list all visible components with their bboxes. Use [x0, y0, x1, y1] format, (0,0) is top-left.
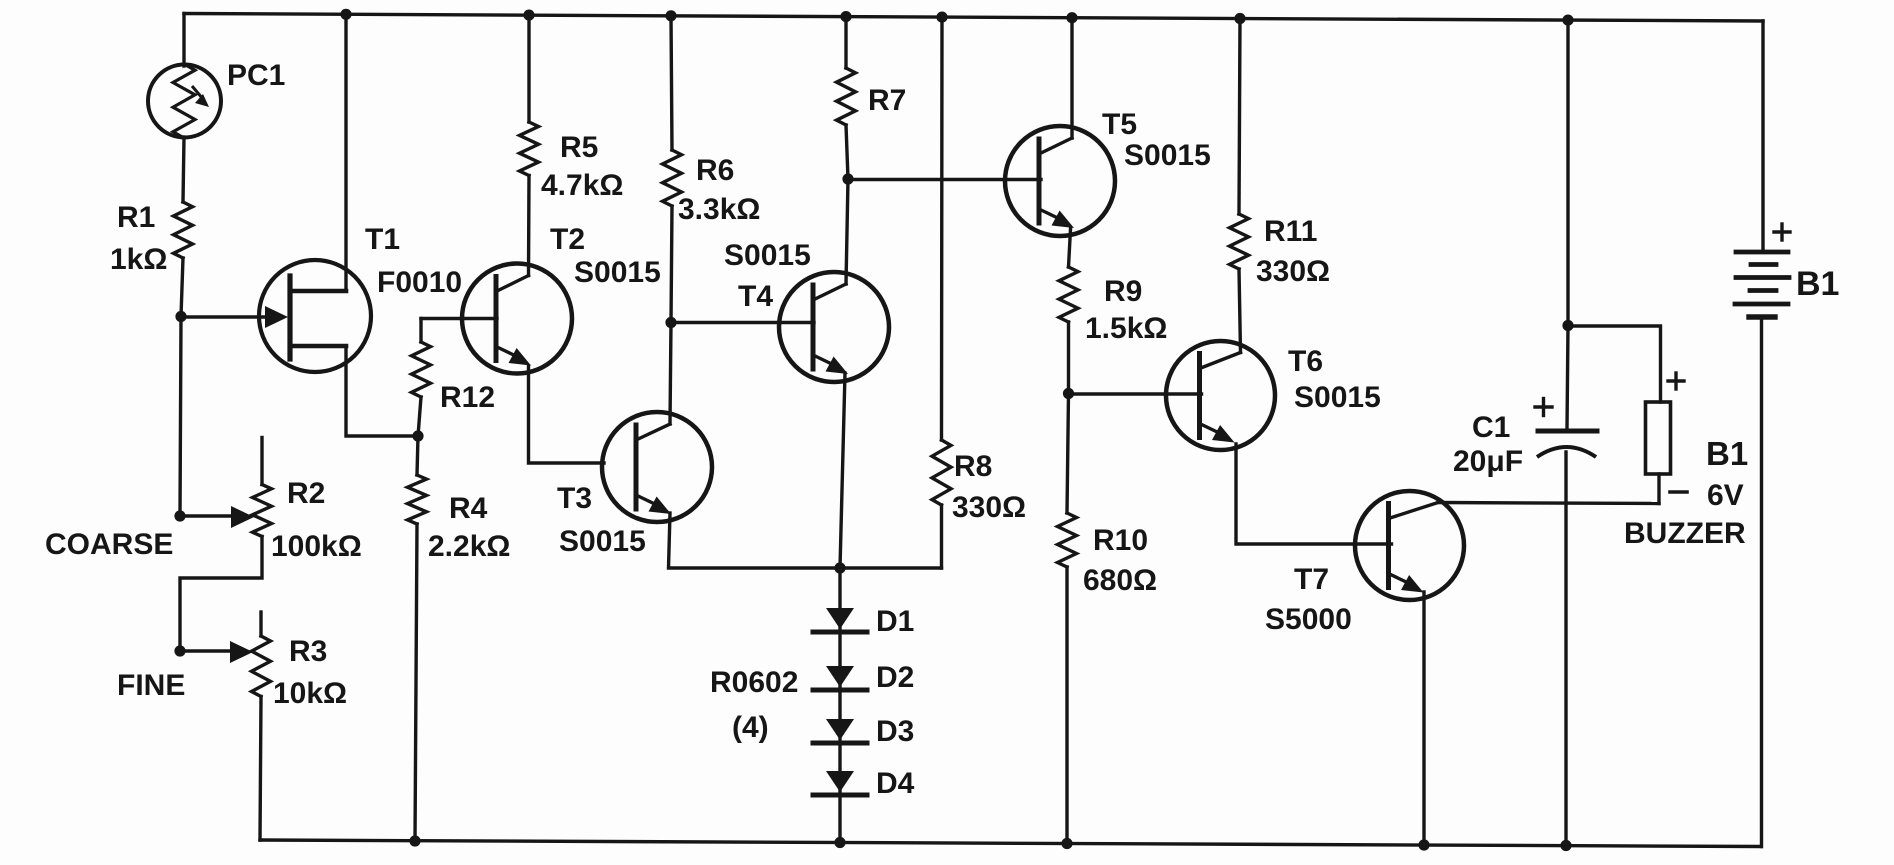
- wire gate node down to COARSE wiper node: [180, 317, 181, 516]
- svg-text:R10: R10: [1093, 524, 1148, 557]
- diode D3: [826, 719, 854, 740]
- svg-text:R0602: R0602: [710, 666, 798, 699]
- resistor R5: [520, 122, 539, 176]
- svg-text:10kΩ: 10kΩ: [273, 677, 347, 710]
- node R7 / T4 collector / T5 base: [842, 173, 853, 184]
- capacitor C1: [1538, 429, 1597, 434]
- wire R4 to ground rail: [415, 524, 417, 841]
- svg-text:100kΩ: 100kΩ: [271, 530, 362, 563]
- node junction top rail / R5: [523, 10, 534, 21]
- wire T3 emitter down and right to diode node: [669, 513, 841, 568]
- wire node to C1 top plate: [1567, 326, 1568, 430]
- wire T7 emitter to ground rail: [1422, 592, 1425, 845]
- svg-text:T4: T4: [738, 280, 773, 313]
- svg-text:D3: D3: [876, 715, 914, 748]
- wire C1 bottom plate to ground rail: [1564, 452, 1567, 846]
- photocell PC1: [148, 65, 221, 138]
- node COARSE wiper: [174, 510, 185, 521]
- node C1 / buzzer branch: [1562, 320, 1573, 331]
- svg-text:20μF: 20μF: [1453, 445, 1523, 478]
- svg-text:S0015: S0015: [724, 239, 811, 272]
- svg-text:B1: B1: [1706, 435, 1748, 472]
- svg-text:D4: D4: [876, 767, 915, 800]
- transistor T5 (S0015): [1005, 126, 1115, 236]
- node junction top rail / T1 drain: [340, 9, 351, 20]
- wire T4 collector to R7 node: [846, 179, 848, 284]
- transistor T4 (S0015): [779, 272, 889, 382]
- svg-text:1kΩ: 1kΩ: [110, 243, 167, 276]
- resistor R6: [663, 150, 682, 206]
- node R4 / ground rail: [409, 835, 420, 846]
- wire top-left corner to PC1: [182, 14, 185, 67]
- resistor R4: [417, 436, 418, 475]
- wire T6 emitter to T7 base: [1236, 444, 1392, 544]
- wire T7 collector to buzzer negative lead: [1438, 503, 1659, 504]
- wire R6 to node: [671, 206, 672, 323]
- svg-text:COARSE: COARSE: [45, 528, 173, 561]
- wire top rail corner to battery: [1761, 21, 1764, 252]
- svg-text:B1: B1: [1796, 265, 1839, 303]
- node junction top rail / T5 collector: [1066, 12, 1077, 23]
- node junction top rail / C1 branch: [1562, 15, 1573, 26]
- wire T3 collector to R6/T4 node: [670, 323, 671, 425]
- svg-text:R2: R2: [287, 477, 325, 510]
- wire top rail to T5 collector: [1070, 18, 1073, 138]
- wire T1 source down and right to R12/R4 node: [346, 346, 418, 436]
- wire FINE wiper arm: [180, 649, 231, 652]
- svg-text:6V: 6V: [1707, 479, 1744, 512]
- wiper arrow of R3: [230, 641, 253, 663]
- wire T4 emitter to diode node: [840, 373, 845, 568]
- diode D2: [826, 666, 854, 687]
- svg-text:D2: D2: [876, 661, 914, 694]
- svg-text:S0015: S0015: [1294, 381, 1381, 414]
- svg-text:FINE: FINE: [117, 669, 185, 702]
- wire R11 to T6 collector: [1239, 269, 1241, 353]
- wire R1 to gate node: [181, 258, 183, 317]
- resistor R8: [932, 440, 951, 505]
- wire R12 to node: [418, 397, 421, 436]
- wire top rail to R6: [671, 16, 672, 150]
- svg-text:R8: R8: [954, 450, 992, 483]
- wire bottom ground rail: [260, 840, 1761, 847]
- wire top rail to R11: [1239, 19, 1240, 215]
- svg-text:330Ω: 330Ω: [952, 491, 1026, 524]
- svg-text:R4: R4: [449, 492, 488, 525]
- node R10 / ground rail: [1061, 838, 1072, 849]
- node diode chain top: [834, 562, 845, 573]
- node diode chain / ground rail: [834, 837, 845, 848]
- svg-text:330Ω: 330Ω: [1256, 255, 1330, 288]
- transistor T1 (JFET F0010): [259, 260, 371, 372]
- resistor R12: [419, 319, 422, 343]
- svg-text:T6: T6: [1288, 345, 1323, 378]
- svg-text:680Ω: 680Ω: [1083, 564, 1157, 597]
- svg-text:D1: D1: [876, 605, 914, 638]
- node R12 / R4 / T1 source: [412, 430, 423, 441]
- node junction top rail / R6: [665, 10, 676, 21]
- svg-text:BUZZER: BUZZER: [1624, 517, 1746, 550]
- wire gate node to T1 gate: [181, 315, 270, 318]
- buzzer B1 body: [1646, 402, 1671, 474]
- node junction top rail / R7: [840, 11, 851, 22]
- svg-text:R11: R11: [1264, 215, 1317, 248]
- svg-text:T7: T7: [1294, 563, 1329, 596]
- resistor R7: [837, 68, 856, 125]
- svg-text:S0015: S0015: [1124, 139, 1211, 172]
- wire R7 to node: [846, 125, 848, 179]
- wiper arrow of R2: [231, 506, 254, 528]
- wire PC1 to R1: [183, 137, 184, 202]
- potentiometer R2 (COARSE): [260, 438, 263, 485]
- wire T1 drain to top rail: [344, 14, 347, 291]
- wire node to T5 base: [848, 178, 1041, 181]
- svg-text:PC1: PC1: [227, 59, 285, 92]
- svg-text:T3: T3: [557, 482, 592, 515]
- resistor R9: [1059, 267, 1078, 322]
- resistor R10: [1067, 394, 1069, 514]
- svg-text:2.2kΩ: 2.2kΩ: [428, 530, 510, 563]
- transistor T3 (S0015): [602, 412, 712, 522]
- wire top rail to R8: [940, 17, 944, 440]
- svg-text:F0010: F0010: [377, 266, 462, 299]
- svg-text:R6: R6: [696, 154, 734, 187]
- diode D1: [826, 608, 854, 629]
- node R1 / T1 gate / R2 branch: [175, 311, 186, 322]
- wire node to T4 base: [671, 321, 814, 324]
- svg-text:C1: C1: [1472, 411, 1510, 444]
- wire T5 emitter to R9: [1069, 229, 1071, 267]
- svg-text:S5000: S5000: [1265, 603, 1352, 636]
- node FINE wiper: [174, 645, 185, 656]
- label buzzer minus: [1670, 490, 1687, 494]
- node T7 emitter / ground rail: [1418, 839, 1429, 850]
- svg-text:3.3kΩ: 3.3kΩ: [678, 193, 760, 226]
- svg-text:R7: R7: [868, 84, 906, 117]
- wire node to T6 base: [1069, 392, 1202, 395]
- label battery plus: [1774, 230, 1790, 233]
- svg-text:T1: T1: [365, 223, 400, 256]
- node junction top rail / R8: [936, 12, 947, 23]
- potentiometer R3 (FINE): [259, 612, 262, 636]
- svg-text:R9: R9: [1104, 275, 1142, 308]
- node C1 / ground rail: [1560, 840, 1571, 851]
- resistor R11: [1230, 214, 1249, 269]
- node junction top rail / R11: [1234, 13, 1245, 24]
- wire top supply rail: [184, 14, 1763, 22]
- wire top rail to R5: [527, 15, 530, 122]
- wire R2 bottom to FINE wiper node: [180, 537, 262, 652]
- node R6 / T3 collector / T4 base: [665, 317, 676, 328]
- svg-text:R5: R5: [560, 131, 598, 164]
- transistor T6 (S0015): [1166, 341, 1275, 450]
- wire R8 to diode-row wire: [940, 505, 943, 568]
- svg-text:4.7kΩ: 4.7kΩ: [541, 169, 623, 202]
- svg-text:S0015: S0015: [574, 256, 661, 289]
- svg-text:R12: R12: [440, 381, 495, 414]
- resistor R1: [174, 202, 193, 258]
- svg-text:T2: T2: [550, 223, 585, 256]
- wire R12 top corner to T2 base: [421, 317, 497, 320]
- wire T2 emitter to T3 base: [529, 366, 605, 463]
- wire right edge battery branch lower: [1760, 317, 1763, 847]
- transistor T7 (S5000): [1355, 491, 1464, 600]
- wire top rail to R7: [844, 17, 847, 68]
- wire diode chain: [838, 568, 841, 842]
- diode D4: [826, 771, 854, 792]
- svg-text:1.5kΩ: 1.5kΩ: [1085, 312, 1167, 345]
- wire diode node to R8 bottom: [840, 566, 942, 569]
- node R9 / R10 / T6 base: [1063, 388, 1074, 399]
- wire COARSE wiper arm: [180, 514, 232, 517]
- wire R3 bottom to ground rail: [260, 697, 261, 841]
- wire R10 to ground rail: [1065, 567, 1068, 844]
- svg-text:R3: R3: [289, 635, 327, 668]
- wire node to buzzer top: [1568, 326, 1661, 402]
- transistor T2 (S0015): [462, 264, 572, 374]
- wire top rail down to C1/buzzer node: [1566, 20, 1569, 325]
- label buzzer plus: [1668, 379, 1684, 382]
- battery B1: [1736, 250, 1788, 255]
- svg-text:T5: T5: [1102, 108, 1137, 141]
- svg-text:(4): (4): [732, 711, 769, 744]
- wire R5 to T2 collector: [527, 176, 531, 276]
- wire R9 to node: [1067, 322, 1070, 394]
- svg-text:R1: R1: [117, 201, 155, 234]
- label C1 plus: [1535, 405, 1552, 408]
- wire buzzer bottom lead: [1657, 474, 1660, 504]
- svg-text:S0015: S0015: [559, 525, 646, 558]
